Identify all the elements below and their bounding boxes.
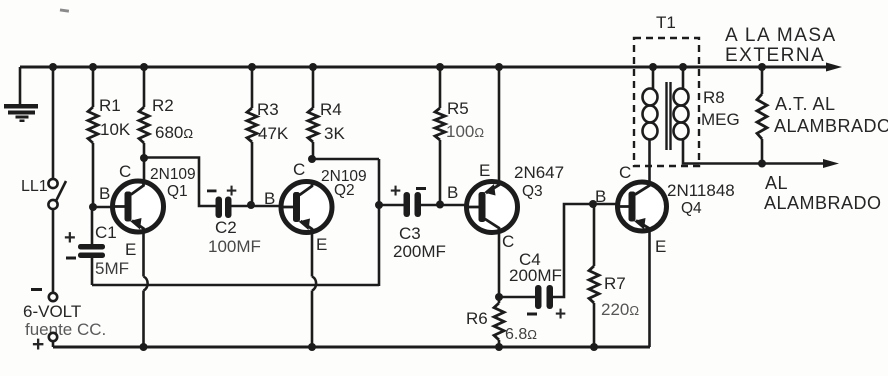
svg-text:C3: C3 <box>399 224 421 243</box>
wire: feedback line from C1 bottom to Q2 collector node <box>92 284 379 287</box>
node: Q2 base / R3 / C2 junction <box>247 201 255 209</box>
wire: battery/switch branch from top rail <box>52 67 55 179</box>
svg-text:200MF: 200MF <box>509 266 562 285</box>
svg-text:10K: 10K <box>100 120 131 139</box>
svg-text:E: E <box>316 235 327 254</box>
svg-text:B: B <box>447 183 458 202</box>
svg-text:E: E <box>479 161 490 180</box>
svg-text:R5: R5 <box>447 99 469 118</box>
wire: Q3 emitter up to top rail <box>495 63 503 71</box>
svg-text:B: B <box>595 187 606 206</box>
resistor R4 (3K) from rail to Q2 collector <box>309 63 317 71</box>
svg-text:MEG: MEG <box>701 110 740 129</box>
node: R8 to output line <box>758 160 766 168</box>
resistor R1 (10K) from rail to Q1 base <box>89 63 97 71</box>
svg-text:R3: R3 <box>257 100 279 119</box>
capacitor C3 (200MF) coupling Q2 to Q3 base <box>404 192 411 217</box>
svg-text:3K: 3K <box>324 124 345 143</box>
wire: C2 to Q2 base <box>232 205 282 208</box>
svg-text:47K: 47K <box>258 124 289 143</box>
svg-text:C: C <box>619 163 631 182</box>
wire: secondary bottom out to fence line <box>683 139 826 164</box>
svg-text:6.8Ω: 6.8Ω <box>505 326 537 343</box>
switch LL1 <box>48 179 57 188</box>
resistor R2 (680 ohm) from rail to Q1 collector <box>140 63 148 71</box>
node: C3 left / riser junction <box>375 201 383 209</box>
svg-text:+: + <box>555 304 566 325</box>
node: Q3 base / R5 / C3 junction <box>436 201 444 209</box>
svg-text:200MF: 200MF <box>393 242 446 261</box>
svg-text:Q4: Q4 <box>681 200 702 217</box>
label: C4 minus <box>527 313 537 316</box>
svg-text:Q2: Q2 <box>334 182 355 199</box>
node: T1 primary top on rail <box>649 63 657 71</box>
wire: Q2 emitter down to bottom rail with hop over feedback line <box>311 232 314 277</box>
svg-text:+: + <box>390 181 401 202</box>
svg-text:+: + <box>226 181 237 202</box>
capacitor C1 (5MF) from Q1 base node down to feedback line <box>91 207 94 245</box>
svg-text:100Ω: 100Ω <box>446 122 484 141</box>
svg-text:R4: R4 <box>320 100 342 119</box>
svg-text:C: C <box>502 232 514 251</box>
label: C3 minus <box>416 187 426 190</box>
wire: Q1 base <box>93 206 114 209</box>
node: Q3 collector / R6 / C4 junction <box>495 293 503 301</box>
transistor Q3 (2N647), emitter on top <box>467 182 518 233</box>
node: junction top rail / switch branch <box>49 63 57 71</box>
node: Q4 base / R7 junction <box>589 200 597 208</box>
resistor R6 (6.8 ohm) from Q3 collector node to bottom rail <box>494 303 504 340</box>
svg-text:R6: R6 <box>466 309 488 328</box>
wire: Q2 collector over to C3 riser <box>312 158 379 161</box>
arrow: AL ALAMBRADO output <box>823 159 839 168</box>
node: T1 secondary top on rail <box>679 63 687 71</box>
arrow: top rail to A LA MASA EXTERNA <box>826 63 842 72</box>
capacitor C2 (100MF) coupling Q1 to Q2 base <box>216 197 223 219</box>
svg-text:C: C <box>293 160 305 179</box>
node: Q1 base / R1 / C1 junction <box>89 203 97 211</box>
wire: Q1 collector up and over to C2 <box>143 158 146 182</box>
svg-text:AL: AL <box>765 173 788 193</box>
svg-text:C: C <box>119 162 131 181</box>
svg-text:R8: R8 <box>703 88 725 107</box>
node: R6 to bottom rail <box>495 343 503 351</box>
svg-text:EXTERNA: EXTERNA <box>725 45 825 66</box>
svg-text:A LA MASA: A LA MASA <box>725 25 837 46</box>
label: C1 minus <box>66 257 76 260</box>
svg-text:A.T. AL: A.T. AL <box>775 94 836 114</box>
terminal: battery minus (open circle) <box>49 293 57 301</box>
wire: top supply rail (negative bus) <box>20 66 829 69</box>
wire: switch to battery minus terminal <box>52 209 55 293</box>
scan speck (decorative) <box>60 8 69 12</box>
svg-text:T1: T1 <box>656 13 676 32</box>
wire: C4 right to riser up to Q4 base <box>553 204 619 297</box>
svg-text:E: E <box>125 240 136 259</box>
svg-text:2N647: 2N647 <box>514 163 564 182</box>
T1 core <box>665 82 667 150</box>
wire: bottom supply rail (positive bus) <box>53 346 650 349</box>
node: R2 / Q1 collector junction <box>140 154 148 162</box>
svg-text:6-VOLT: 6-VOLT <box>23 302 81 321</box>
resistor R3 (47K) from rail to Q2 base <box>248 63 256 71</box>
label: minus sign of battery <box>31 288 42 291</box>
svg-text:ALAMBRADO: ALAMBRADO <box>764 193 882 213</box>
svg-text:100MF: 100MF <box>208 237 261 256</box>
svg-text:R1: R1 <box>99 96 121 115</box>
svg-text:+: + <box>32 333 44 356</box>
wire: Q4 emitter down to bottom rail right end <box>648 229 651 347</box>
T1 secondary winding (right coil) <box>682 67 685 90</box>
wire: Q3 collector down to R6/C4 node <box>498 230 501 303</box>
capacitor C4 (200MF) coupling Q3 to Q4 base <box>499 296 536 299</box>
svg-text:C1: C1 <box>95 223 117 242</box>
svg-text:R2: R2 <box>152 96 174 115</box>
transistor Q4 (2N11848) <box>618 182 667 231</box>
terminal: battery plus (open circle) <box>49 333 57 341</box>
svg-text:Q3: Q3 <box>522 183 543 200</box>
node: Q1 emitter to bottom rail <box>140 343 148 351</box>
svg-text:Q1: Q1 <box>167 183 188 200</box>
wire: C3 to Q3 base <box>421 204 467 207</box>
svg-text:LL1: LL1 <box>21 178 48 195</box>
svg-text:2N109: 2N109 <box>150 166 196 183</box>
resistor R7 (220 ohm) from Q4 base to bottom rail <box>593 204 596 266</box>
svg-text:2N11848: 2N11848 <box>667 181 735 200</box>
transistor Q1 (2N109) <box>113 181 164 232</box>
label: C2 minus <box>207 190 217 193</box>
node: Q2 emitter to bottom rail <box>308 343 316 351</box>
svg-text:+: + <box>64 227 76 249</box>
wire: battery plus to bottom rail <box>52 341 55 347</box>
svg-text:B: B <box>264 189 275 208</box>
node: R4 / Q2 collector junction <box>308 155 316 163</box>
transistor Q2 (2N109) <box>281 182 332 233</box>
resistor R8 (MEG) from rail to fence line <box>758 63 766 71</box>
ground: earth ground symbol at top-left <box>19 67 22 104</box>
wire: riser to C3 <box>379 204 404 207</box>
wire: Q4 collector up to transformer primary <box>648 140 651 184</box>
T1 primary winding (left coil) <box>652 67 655 90</box>
transformer T1 dashed enclosure <box>634 38 699 166</box>
svg-text:C2: C2 <box>215 218 237 237</box>
svg-text:680Ω: 680Ω <box>155 123 193 142</box>
svg-text:ALAMBRADO: ALAMBRADO <box>774 116 888 136</box>
svg-text:R7: R7 <box>604 274 626 293</box>
svg-text:220Ω: 220Ω <box>601 300 639 319</box>
wire: Q1 emitter down to bottom rail with hop over feedback line <box>142 230 145 277</box>
svg-text:E: E <box>655 237 666 256</box>
resistor R5 (100 ohm) from rail to Q3 base <box>436 63 444 71</box>
svg-text:5MF: 5MF <box>95 259 129 278</box>
svg-text:B: B <box>99 184 110 203</box>
node: R7 to bottom rail <box>590 343 598 351</box>
